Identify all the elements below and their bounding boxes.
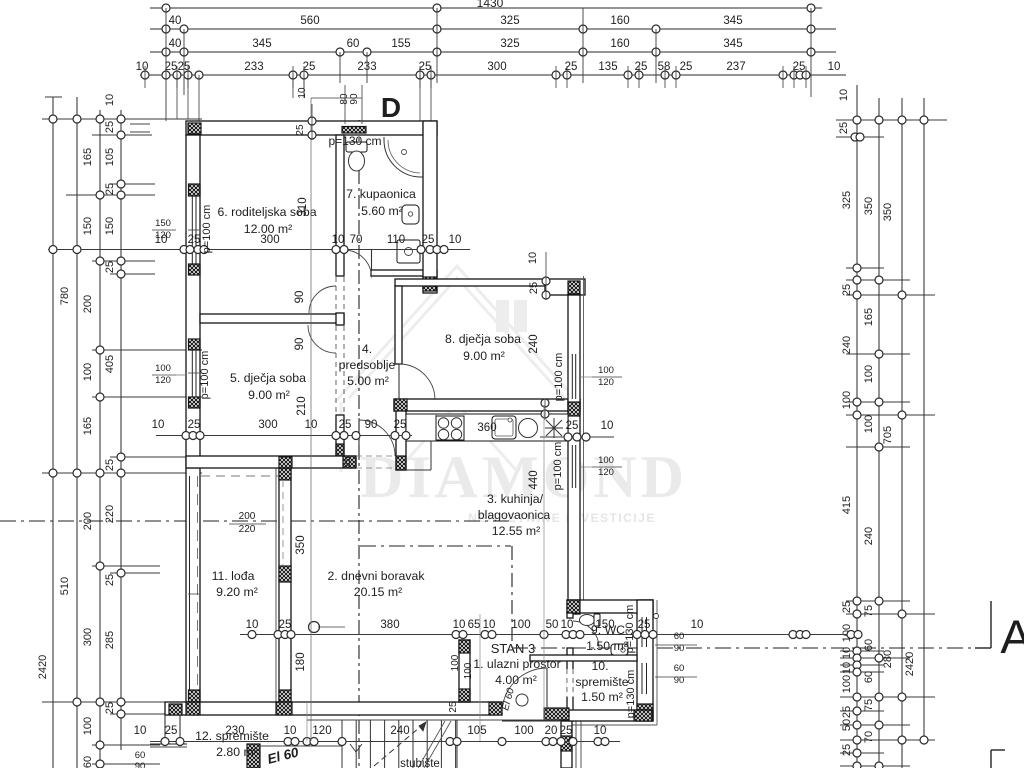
svg-text:2420: 2420	[37, 655, 49, 679]
wall right exterior rooms8-kitchen	[568, 295, 580, 614]
svg-text:D: D	[381, 92, 401, 123]
wall bottom entrance hatched	[544, 708, 569, 720]
wall left exterior	[186, 135, 200, 702]
svg-text:1430: 1430	[477, 0, 504, 10]
wall kitchen left stub	[396, 411, 406, 470]
wall loggia right	[279, 468, 291, 702]
svg-text:25: 25	[841, 601, 853, 613]
svg-text:405: 405	[104, 355, 116, 373]
door room6	[309, 286, 336, 313]
svg-text:10: 10	[246, 619, 259, 631]
piers right wall	[568, 402, 580, 416]
svg-text:240: 240	[390, 725, 409, 737]
svg-text:60: 60	[674, 663, 685, 674]
svg-text:90: 90	[365, 419, 378, 431]
svg-text:10: 10	[104, 94, 116, 106]
svg-text:105: 105	[467, 725, 486, 737]
svg-text:10: 10	[297, 87, 308, 99]
dim row bottom y741	[150, 741, 620, 743]
svg-text:120: 120	[155, 230, 171, 241]
svg-text:110: 110	[387, 234, 405, 246]
svg-text:150: 150	[155, 218, 171, 229]
svg-text:325: 325	[500, 15, 519, 27]
svg-text:100: 100	[463, 662, 474, 679]
dimension chain row detail 10-25-233-...	[140, 74, 846, 76]
svg-text:p=100 cm: p=100 cm	[553, 353, 565, 402]
svg-text:350: 350	[882, 203, 894, 221]
dim row y634 long	[240, 634, 862, 636]
svg-text:10: 10	[527, 252, 539, 264]
svg-text:25: 25	[560, 725, 573, 737]
kitchen sink	[492, 416, 516, 439]
door room8	[399, 364, 435, 400]
sink bathroom	[402, 205, 419, 224]
svg-text:100: 100	[841, 391, 853, 409]
svg-text:285: 285	[104, 631, 116, 649]
shower corner	[384, 140, 420, 177]
window room5 left	[187, 350, 199, 397]
svg-text:440: 440	[528, 470, 540, 489]
svg-text:200: 200	[239, 511, 256, 522]
outer boundary right of spremiste	[656, 600, 658, 725]
svg-text:345: 345	[252, 38, 271, 50]
svg-text:25: 25	[279, 619, 292, 631]
svg-text:STAN 3: STAN 3	[491, 641, 536, 656]
dim ticks kitchen right	[540, 436, 614, 438]
right dimension chain vertical lines	[856, 85, 858, 768]
svg-text:165: 165	[82, 148, 94, 166]
section A bracket	[990, 601, 992, 648]
extension lines top window	[344, 85, 346, 124]
svg-text:5. dječja soba: 5. dječja soba	[230, 371, 306, 385]
wall stairwell below	[561, 721, 572, 768]
svg-text:100: 100	[863, 415, 875, 433]
svg-text:10: 10	[453, 619, 466, 631]
wall divider rooms 6-5	[200, 314, 344, 323]
wall thickness tick x312	[308, 117, 316, 125]
svg-text:7. kupaonica: 7. kupaonica	[346, 187, 416, 201]
svg-text:100: 100	[514, 725, 533, 737]
svg-text:10: 10	[449, 234, 462, 246]
electric panel El 60	[516, 694, 528, 706]
svg-text:25: 25	[528, 282, 540, 294]
door room5	[308, 325, 336, 353]
svg-text:10: 10	[594, 725, 607, 737]
dim row y249 room6-bath	[48, 249, 470, 251]
svg-text:350: 350	[863, 197, 875, 215]
svg-text:p=130 cm: p=130 cm	[624, 605, 636, 654]
stairs risers	[341, 720, 343, 768]
svg-text:300: 300	[260, 234, 279, 246]
wall top exterior	[186, 121, 437, 135]
svg-text:10: 10	[134, 725, 147, 737]
svg-text:11. lođa: 11. lođa	[212, 569, 255, 583]
svg-text:380: 380	[380, 619, 399, 631]
svg-text:10: 10	[841, 662, 853, 674]
svg-text:300: 300	[487, 61, 506, 73]
svg-text:100: 100	[450, 654, 461, 671]
window wc right p=130	[639, 617, 652, 647]
svg-text:25: 25	[680, 61, 693, 73]
svg-text:325: 325	[841, 191, 853, 209]
svg-text:70: 70	[350, 234, 363, 246]
dimension chain row 1430	[150, 7, 822, 9]
svg-text:300: 300	[82, 628, 94, 646]
edge marks top left	[130, 123, 150, 125]
pier hatch bathroom right bottom	[423, 277, 436, 291]
svg-text:10: 10	[601, 420, 614, 432]
vent circle spremiste	[654, 614, 659, 619]
svg-text:4.00 m²: 4.00 m²	[495, 673, 537, 687]
svg-text:10: 10	[561, 619, 574, 631]
svg-text:100: 100	[863, 365, 875, 383]
svg-text:237: 237	[726, 61, 745, 73]
kitchen stove	[436, 416, 464, 440]
svg-text:2. dnevni boravak: 2. dnevni boravak	[327, 569, 425, 583]
kitchen round sink	[519, 419, 538, 438]
window room8 right p=100	[569, 354, 579, 399]
svg-text:360: 360	[477, 422, 496, 434]
svg-text:70: 70	[863, 731, 875, 743]
svg-text:10: 10	[152, 419, 165, 431]
svg-text:25: 25	[638, 619, 651, 631]
svg-text:25: 25	[838, 122, 850, 134]
wall corridor left of bath and predsoblje	[336, 135, 344, 276]
svg-text:350: 350	[295, 535, 307, 554]
svg-text:12.55 m²: 12.55 m²	[492, 524, 541, 538]
svg-text:120: 120	[598, 467, 614, 478]
left dimension chain vertical lines	[52, 97, 54, 768]
svg-text:100: 100	[841, 675, 853, 693]
svg-text:9.00 m²: 9.00 m²	[248, 388, 290, 402]
svg-text:280: 280	[882, 650, 894, 668]
svg-text:65: 65	[468, 619, 481, 631]
svg-text:310: 310	[297, 197, 309, 216]
wall spremiste bottom	[569, 710, 653, 721]
svg-text:25: 25	[104, 121, 116, 133]
svg-text:120: 120	[312, 725, 331, 737]
svg-text:325: 325	[500, 38, 519, 50]
pier hatch spremiste bottom right	[637, 704, 653, 720]
svg-text:9.20 m²: 9.20 m²	[216, 585, 258, 599]
svg-text:60: 60	[82, 756, 94, 768]
svg-text:40: 40	[169, 38, 182, 50]
wall room8 left	[395, 286, 402, 364]
svg-text:25: 25	[104, 183, 116, 195]
svg-text:780: 780	[59, 287, 71, 305]
svg-text:8. dječja soba: 8. dječja soba	[445, 332, 521, 346]
svg-text:105: 105	[104, 148, 116, 166]
extension line x307 bottom	[306, 702, 308, 741]
dimension chain row 40-345-60-155-325-160-345	[150, 51, 836, 53]
svg-text:p=100 cm: p=100 cm	[201, 205, 213, 254]
svg-text:60: 60	[674, 631, 685, 642]
svg-text:90: 90	[349, 93, 360, 105]
pier hatch top-left	[188, 123, 201, 134]
wall shelf wc-spremiste divider	[530, 655, 637, 661]
extension line x544	[543, 405, 545, 720]
svg-text:100: 100	[82, 717, 94, 735]
svg-text:25: 25	[104, 459, 116, 471]
svg-text:p=130 cm: p=130 cm	[625, 670, 637, 719]
svg-text:50: 50	[546, 619, 559, 631]
toilet bathroom	[346, 142, 367, 152]
svg-text:75: 75	[863, 699, 875, 711]
svg-text:165: 165	[82, 417, 94, 435]
svg-text:blagovaonica: blagovaonica	[478, 508, 551, 522]
svg-text:100: 100	[598, 365, 614, 376]
svg-text:25: 25	[566, 420, 579, 432]
wall bathroom bottom	[371, 270, 437, 276]
svg-text:10: 10	[828, 61, 841, 73]
svg-text:90: 90	[294, 291, 306, 304]
svg-text:345: 345	[723, 38, 742, 50]
window spremiste right p=130	[639, 663, 652, 694]
extension line x311	[310, 98, 312, 741]
extension lines top block	[165, 8, 167, 121]
svg-text:p=130 cm: p=130 cm	[328, 134, 381, 148]
wc toilet	[580, 615, 595, 626]
svg-text:5.00 m²: 5.00 m²	[347, 374, 389, 388]
svg-text:2.80 m²: 2.80 m²	[216, 745, 258, 759]
wall bottom exterior living	[165, 702, 502, 715]
svg-text:2420: 2420	[904, 652, 916, 676]
left dimension ticks	[42, 118, 202, 120]
svg-text:p=100 cm: p=100 cm	[552, 442, 564, 491]
svg-text:25: 25	[339, 419, 352, 431]
wall room8 top	[395, 279, 545, 286]
svg-text:100: 100	[598, 455, 614, 466]
svg-text:100: 100	[155, 363, 171, 374]
eave line right of wall	[583, 276, 585, 600]
loggia glass dashed	[282, 480, 284, 565]
svg-text:1. ulazni prostor: 1. ulazni prostor	[473, 657, 561, 671]
svg-text:60: 60	[863, 671, 875, 683]
svg-text:spremište: spremište	[575, 675, 628, 689]
section line A-A left dash-dot	[0, 520, 511, 522]
wall post between doors	[336, 313, 344, 325]
svg-text:5.60 m²: 5.60 m²	[361, 204, 403, 218]
svg-text:150: 150	[595, 619, 614, 631]
svg-text:25: 25	[342, 456, 353, 468]
dim ticks room8 right top	[540, 292, 614, 294]
pier hatch top-right corner	[423, 123, 436, 134]
extension line stairs right	[479, 614, 481, 741]
stairs direction arrow	[374, 722, 426, 766]
svg-text:25: 25	[448, 701, 459, 713]
svg-text:220: 220	[239, 524, 256, 535]
svg-text:100: 100	[511, 619, 530, 631]
svg-text:10: 10	[483, 619, 496, 631]
svg-text:345: 345	[723, 15, 742, 27]
svg-text:180: 180	[295, 652, 307, 671]
svg-text:60: 60	[347, 38, 360, 50]
stairs break lines	[418, 721, 445, 768]
dimension chain row 40-560-325-160-345	[150, 28, 836, 30]
svg-text:160: 160	[610, 15, 629, 27]
pier hatch kitchen top right	[568, 399, 580, 411]
svg-text:20.15 m²: 20.15 m²	[354, 585, 403, 599]
window room6 left p=100	[187, 196, 199, 264]
door bathroom	[371, 250, 373, 270]
svg-text:25: 25	[165, 725, 178, 737]
svg-text:120: 120	[155, 375, 171, 386]
svg-text:25: 25	[841, 284, 853, 296]
right dimension ticks	[836, 119, 947, 121]
section line D vertical dash-dot	[358, 120, 360, 768]
svg-text:560: 560	[300, 15, 319, 27]
svg-text:230: 230	[225, 725, 244, 737]
svg-text:4.: 4.	[362, 342, 372, 356]
svg-text:220: 220	[104, 505, 116, 523]
svg-text:25: 25	[841, 744, 853, 756]
svg-text:705: 705	[882, 426, 894, 444]
svg-text:233: 233	[244, 61, 263, 73]
svg-text:90: 90	[135, 761, 146, 768]
section line A right dash-dot	[512, 647, 975, 649]
svg-text:240: 240	[863, 527, 875, 545]
washing machine	[397, 240, 420, 263]
svg-text:150: 150	[82, 217, 94, 235]
svg-text:415: 415	[841, 496, 853, 514]
wc sink	[611, 644, 628, 655]
window loggia left	[187, 476, 199, 696]
pier hatch room8 top right	[568, 281, 580, 294]
kitchen lower cabinet	[430, 441, 432, 470]
dim row y435 room5	[156, 435, 412, 437]
svg-text:165: 165	[863, 308, 875, 326]
door wc	[573, 621, 599, 648]
svg-text:240: 240	[841, 336, 853, 354]
svg-text:90: 90	[294, 338, 306, 351]
dashed opening loggia top	[201, 475, 278, 477]
piers on left wall	[189, 184, 201, 196]
svg-text:510: 510	[59, 577, 71, 595]
wall room5 bottom	[186, 456, 356, 468]
svg-text:10: 10	[841, 647, 853, 659]
svg-text:10: 10	[838, 89, 850, 101]
svg-text:predsoblje: predsoblje	[339, 358, 396, 372]
dashed opening predsoblje-room5	[335, 326, 337, 414]
svg-text:210: 210	[296, 396, 308, 415]
window bathroom top p=130	[342, 127, 366, 134]
svg-text:10: 10	[691, 619, 704, 631]
svg-text:300: 300	[258, 419, 277, 431]
wall corridor lower	[336, 415, 344, 456]
bottom-left wall stubs	[164, 715, 166, 744]
svg-text:25: 25	[104, 574, 116, 586]
wall wc left thin	[567, 613, 573, 618]
svg-text:60: 60	[135, 750, 146, 761]
svg-text:50: 50	[841, 719, 853, 731]
watermark house logo	[335, 266, 578, 472]
svg-text:20: 20	[545, 725, 558, 737]
wall wc-spremiste right exterior	[637, 600, 653, 721]
window kitchen right p=100	[569, 445, 579, 488]
door opening dashed entrance-spremiste	[566, 669, 574, 697]
svg-text:25: 25	[188, 234, 201, 246]
svg-text:160: 160	[610, 38, 629, 50]
wall bathroom right exterior	[423, 121, 437, 293]
door entrance	[546, 668, 548, 713]
svg-text:3. kuhinja/: 3. kuhinja/	[487, 492, 544, 506]
section jog vertical	[511, 546, 513, 648]
section A bracket bottom	[990, 750, 992, 768]
pier hatch kitchen top left	[394, 399, 407, 411]
svg-text:25: 25	[104, 702, 116, 714]
kitchen counter	[406, 414, 568, 441]
svg-text:135: 135	[598, 61, 617, 73]
svg-text:p=100 cm: p=100 cm	[199, 351, 211, 400]
dashed opening predsoblje-room6	[335, 277, 337, 312]
section jog dash-dot lower	[360, 545, 511, 547]
svg-text:25: 25	[188, 419, 201, 431]
svg-text:240: 240	[528, 334, 540, 353]
svg-text:100: 100	[82, 363, 94, 381]
svg-text:25: 25	[295, 124, 306, 136]
svg-text:120: 120	[598, 377, 614, 388]
svg-text:10: 10	[284, 725, 297, 737]
svg-text:stubište: stubište	[400, 758, 440, 768]
svg-text:25: 25	[841, 706, 853, 718]
svg-text:155: 155	[391, 38, 410, 50]
wall kitchen top	[394, 399, 580, 411]
wall entrance left	[459, 640, 470, 702]
svg-text:A: A	[1000, 610, 1024, 663]
svg-text:25: 25	[422, 234, 435, 246]
svg-text:25: 25	[394, 419, 407, 431]
svg-text:10.: 10.	[591, 659, 608, 673]
svg-text:1.50 m²: 1.50 m²	[586, 639, 628, 653]
svg-text:10: 10	[332, 234, 345, 246]
svg-text:25: 25	[104, 261, 116, 273]
svg-text:200: 200	[82, 295, 94, 313]
wall wc top	[567, 600, 653, 613]
svg-text:75: 75	[863, 605, 875, 617]
door living-predsoblje	[358, 418, 360, 460]
kitchen light symbol	[546, 420, 562, 436]
svg-text:60: 60	[863, 639, 875, 651]
svg-text:40: 40	[169, 15, 182, 27]
svg-text:9.00 m²: 9.00 m²	[463, 349, 505, 363]
svg-text:150: 150	[104, 217, 116, 235]
svg-text:1.50 m²: 1.50 m²	[581, 690, 623, 704]
